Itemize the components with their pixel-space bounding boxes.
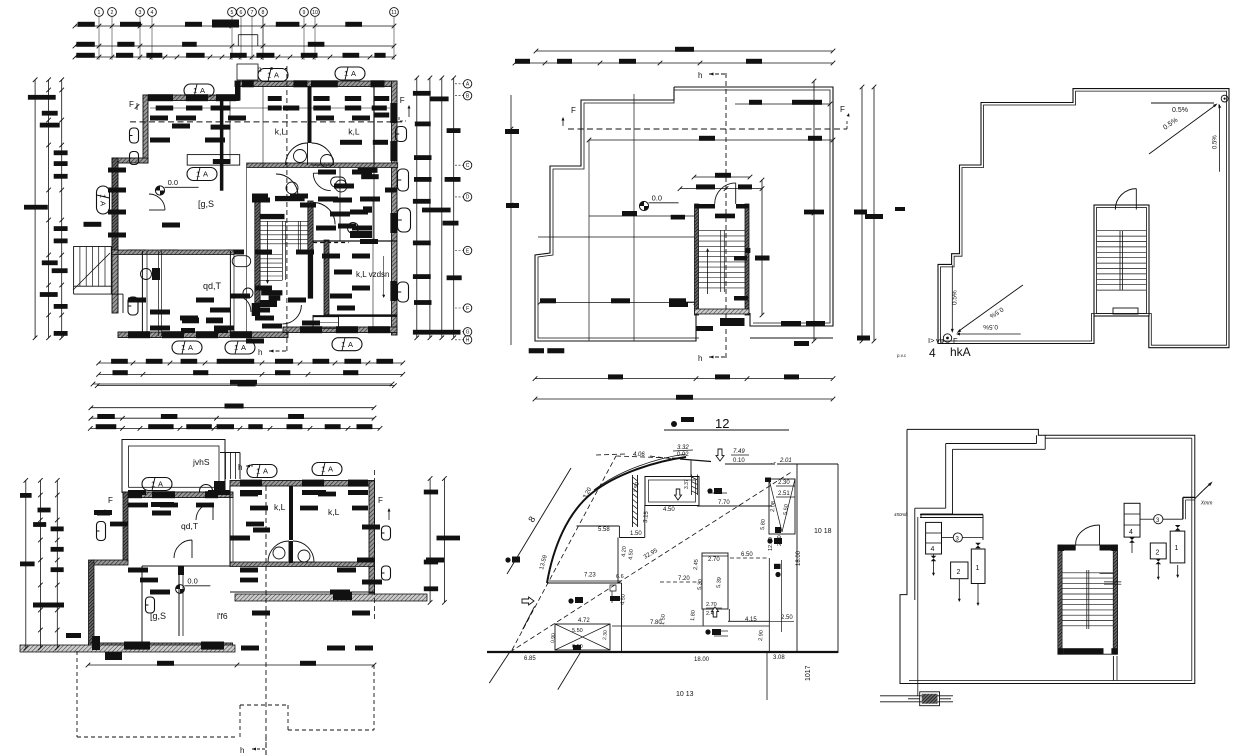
plan3 h-h dashed section line xyxy=(725,73,727,361)
plan4 step detail xyxy=(610,585,618,603)
svg-text:18.00: 18.00 xyxy=(796,550,802,566)
plan1 window blobs right wall xyxy=(390,103,397,123)
svg-text:C: C xyxy=(466,163,470,169)
plan2 bottom wall blobs restamp xyxy=(124,642,150,650)
plan2 interior wall horizontal xyxy=(230,562,374,567)
plan2 bottom wall blobs xyxy=(124,642,150,650)
plan2 interior blobs xyxy=(151,502,174,507)
svg-text:7.23: 7.23 xyxy=(584,573,596,579)
plan5 shaft door xyxy=(1135,189,1137,210)
plan6 shaft door xyxy=(1099,525,1101,545)
plan1 outer wall top-right xyxy=(235,81,397,87)
plan1 bathroom door arcs xyxy=(313,203,335,225)
plan1 partition right rooms vertical xyxy=(373,85,375,164)
svg-text:6.6: 6.6 xyxy=(616,574,624,580)
svg-text:7: 7 xyxy=(251,10,254,16)
plan1 top dimension row 1 xyxy=(75,25,394,27)
plan6 right valves xyxy=(1175,525,1181,531)
plan1 wall between gS and qdT xyxy=(112,250,234,255)
svg-text:1: 1 xyxy=(976,565,980,572)
svg-text:h: h xyxy=(698,71,702,80)
plan4 mid lines xyxy=(697,505,772,507)
svg-text:10: 10 xyxy=(312,10,318,16)
plan1 grid bubbles xyxy=(95,8,104,17)
plan4 dashed diagonal D2 xyxy=(510,471,793,652)
plan1 partition between kL rooms xyxy=(308,86,312,143)
plan2 elevation marker xyxy=(176,585,185,594)
svg-text:jvhS: jvhS xyxy=(192,457,210,467)
svg-text:7.49: 7.49 xyxy=(733,449,745,455)
svg-text:1: 1 xyxy=(98,194,107,198)
svg-text:F: F xyxy=(400,96,405,105)
svg-text:A: A xyxy=(351,69,356,78)
svg-text:F: F xyxy=(129,100,134,109)
plan6 tread line extension xyxy=(1100,573,1114,575)
plan6 left pipe top run xyxy=(920,514,983,516)
svg-text:2.30: 2.30 xyxy=(602,630,609,640)
svg-text:A: A xyxy=(98,201,107,206)
plan6 right box 2 xyxy=(1150,543,1166,559)
plan4 V panel right xyxy=(769,479,795,534)
plan3 top dim row 1 xyxy=(536,50,833,52)
plan2 dim row A xyxy=(91,407,374,409)
plan4 survey dot 5b xyxy=(774,564,781,569)
plan1 interior dim noise row B xyxy=(374,113,389,118)
svg-text:0.02: 0.02 xyxy=(677,452,689,458)
svg-text:10 13: 10 13 xyxy=(676,691,694,698)
svg-text:4.50: 4.50 xyxy=(628,549,635,560)
small dash left of plan5 xyxy=(895,207,905,211)
plan4 left building outline xyxy=(577,525,620,527)
svg-text:5.58: 5.58 xyxy=(598,527,610,533)
svg-text:5.80: 5.80 xyxy=(760,519,767,530)
plan3 bottom dim row 1 xyxy=(535,378,833,380)
plan5 stair shaft xyxy=(1094,205,1149,316)
svg-text:5.50: 5.50 xyxy=(572,628,583,634)
plan4 survey dot 4 xyxy=(707,488,712,493)
svg-text:I>: I> xyxy=(928,336,935,345)
svg-text:A: A xyxy=(241,343,246,352)
plan4 below-base diagonals xyxy=(489,651,510,683)
plan6 left circle 3 xyxy=(953,533,962,542)
plan5 outer wall xyxy=(938,89,1229,348)
svg-text:2.70: 2.70 xyxy=(708,557,720,563)
svg-text:[g,S: [g,S xyxy=(198,199,214,209)
plan1 stair rails xyxy=(281,221,283,280)
svg-text:A: A xyxy=(200,86,205,95)
svg-text:1: 1 xyxy=(341,340,345,349)
plan5 shaft sill xyxy=(1113,308,1138,314)
plan6 stair shaft xyxy=(1058,545,1118,654)
svg-text:1017: 1017 xyxy=(805,665,812,681)
svg-text:2.30: 2.30 xyxy=(778,480,790,486)
plan1 rotated oval stamp left xyxy=(97,186,110,214)
plan2 ground hatch strip left xyxy=(20,645,235,652)
plan3 shaft interior blobs xyxy=(715,214,735,219)
svg-text:A: A xyxy=(188,343,193,352)
plan1 stair shaft left wall xyxy=(255,201,260,303)
plan1 lower-left door arc xyxy=(149,194,165,210)
svg-text:5.30: 5.30 xyxy=(697,579,704,590)
plan1 exterior stair diagonal xyxy=(73,253,110,290)
plan5 slope arrow top-right xyxy=(1149,106,1215,155)
plan3 right dim columns xyxy=(861,87,863,341)
plan1 interior wall below kL rooms xyxy=(247,163,398,168)
svg-text:5.50: 5.50 xyxy=(783,504,790,515)
svg-text:4: 4 xyxy=(931,546,935,553)
plan2 right wall xyxy=(369,481,375,593)
svg-text:3: 3 xyxy=(139,10,142,16)
svg-text:1.50: 1.50 xyxy=(630,531,642,537)
plan3 inner dim line C xyxy=(540,302,696,304)
plan3 interior dim line y237 xyxy=(538,236,695,238)
svg-text:1: 1 xyxy=(98,10,101,16)
plan1 bathroom fixture circle xyxy=(348,223,359,234)
svg-text:2: 2 xyxy=(111,10,114,16)
svg-text:7.80: 7.80 xyxy=(650,620,662,626)
svg-text:0.10: 0.10 xyxy=(733,458,745,464)
svg-text:k,L vzdsn: k,L vzdsn xyxy=(356,270,390,279)
plan1 bottom dimension row 1 xyxy=(99,362,403,364)
plan5 slope arrow bottom-left xyxy=(951,265,953,330)
svg-text:2.45: 2.45 xyxy=(693,559,700,570)
svg-text:k,L: k,L xyxy=(328,507,340,517)
plan3 right vertical dim near shaft xyxy=(761,180,763,315)
svg-text:9: 9 xyxy=(303,10,306,16)
plan1 counter rectangle xyxy=(187,155,240,166)
svg-text:12.10: 12.10 xyxy=(768,537,774,551)
plan1 bottom wall window blobs xyxy=(128,331,150,338)
plan2 door arc gS xyxy=(196,503,213,520)
svg-text:2.90: 2.90 xyxy=(758,630,765,641)
plan1 small 1F oval xyxy=(232,256,251,267)
svg-text:2: 2 xyxy=(1156,550,1160,557)
plan6 right circle 3 xyxy=(1154,515,1163,524)
svg-text:7.70: 7.70 xyxy=(718,500,730,506)
svg-text:4: 4 xyxy=(1129,529,1133,536)
svg-text:11: 11 xyxy=(391,10,396,16)
svg-text:k,L: k,L xyxy=(274,502,286,512)
plan3 outer wall xyxy=(535,87,833,341)
svg-text:1.80: 1.80 xyxy=(690,610,697,621)
plan1 stair treads upper flight xyxy=(260,220,308,222)
plan4 NW diagonal line xyxy=(507,468,571,574)
svg-text:h: h xyxy=(240,746,244,755)
svg-text:F: F xyxy=(466,306,469,312)
svg-text:4.50: 4.50 xyxy=(663,507,675,513)
plan1 oval stamps xyxy=(187,168,217,181)
plan3 shaft dim rows above xyxy=(694,176,750,178)
plan3 stair treads xyxy=(699,230,746,232)
svg-text:1: 1 xyxy=(256,467,260,476)
svg-text:0.0: 0.0 xyxy=(168,178,178,187)
plan2 top wall left xyxy=(123,492,233,498)
plan1 vzdsn room dim lines xyxy=(372,200,374,333)
svg-text:12: 12 xyxy=(715,416,729,431)
plan1 stair shaft top beams xyxy=(260,214,284,219)
plan1 outer wall top-left xyxy=(143,95,239,101)
plan1 top dimension row 3 xyxy=(75,56,394,58)
plan4 X box bottom-left xyxy=(555,624,610,650)
plan2 dashed section lines xyxy=(265,486,267,756)
svg-text:4: 4 xyxy=(929,346,936,360)
scale bar 12 xyxy=(671,421,677,427)
plan2 double door arcs xyxy=(268,541,289,562)
svg-text:1: 1 xyxy=(1175,545,1179,552)
plan4 hollow arrow right xyxy=(522,597,534,605)
svg-text:7.20: 7.20 xyxy=(678,576,690,582)
plan6 right box 4 xyxy=(1124,503,1140,537)
svg-text:A: A xyxy=(328,465,333,474)
plan6 right box 1 xyxy=(1170,531,1185,563)
plan2 courtyard outline xyxy=(122,440,225,493)
plan1 bottom dimension row 3 xyxy=(97,385,394,387)
plan3 shaft door arc xyxy=(715,183,736,204)
svg-text:A: A xyxy=(263,467,268,476)
plan4 right verticals xyxy=(796,464,798,653)
plan1 bottom wall xyxy=(118,332,288,338)
plan1 left dimension columns xyxy=(34,80,36,338)
plan1 stair bottom door arc xyxy=(282,305,301,324)
svg-text:0.5%: 0.5% xyxy=(983,323,998,330)
svg-text:qd,T: qd,T xyxy=(181,521,198,531)
plan1 interior misc blobs xyxy=(211,125,231,130)
svg-text:3.37: 3.37 xyxy=(684,479,690,489)
plan1 wc fixture circle xyxy=(243,288,253,298)
svg-text:2.01: 2.01 xyxy=(779,458,792,464)
plan3 inner dim line B xyxy=(589,139,833,141)
svg-text:4.50: 4.50 xyxy=(620,594,627,605)
plan1 outer wall left upper xyxy=(143,95,148,163)
plan5 shaft treads xyxy=(1097,230,1146,232)
plan6 inner wall top-left section xyxy=(946,443,1037,445)
svg-text:k,L: k,L xyxy=(348,127,360,137)
plan3 inner dim line A xyxy=(735,103,830,105)
svg-text:l'f6: l'f6 xyxy=(217,611,228,621)
plan3 right wing blobs xyxy=(781,321,801,326)
plan1 right letter bubbles xyxy=(463,80,471,88)
plan1 left wall fixtures xyxy=(128,297,138,315)
plan2 top wall right xyxy=(230,481,374,487)
plan1 stair treads lower flight xyxy=(260,254,282,256)
plan1 fixture rect below shaft xyxy=(313,317,338,329)
plan2 left dim columns xyxy=(25,480,27,648)
svg-text:1: 1 xyxy=(321,465,325,474)
plan1 small 1F oval kL room xyxy=(331,177,346,187)
plan2 left wall upper xyxy=(123,492,128,562)
plan2 bottom wall xyxy=(89,643,233,649)
plan1 outer wall right xyxy=(392,81,398,335)
plan6 left box 4 xyxy=(926,522,942,554)
plan1 exterior stair xyxy=(74,247,112,287)
svg-text:0.90: 0.90 xyxy=(550,633,557,643)
plan1 stair top door arc xyxy=(276,174,298,196)
plan1 stair shaft right wall xyxy=(308,201,313,250)
plan4 base line xyxy=(487,651,838,653)
plan4 dashed diagonal D1 xyxy=(512,456,616,650)
plan1 wall window blobs top xyxy=(148,94,173,101)
plan3 inner vertical dim xyxy=(813,81,815,341)
svg-text:2.51: 2.51 xyxy=(778,491,790,497)
plan4 below base vertical xyxy=(766,653,768,700)
svg-text:A: A xyxy=(348,340,353,349)
plan2 interior partitions lower xyxy=(141,566,143,643)
svg-text:3.15: 3.15 xyxy=(643,510,650,523)
svg-text:2.50: 2.50 xyxy=(781,615,793,621)
plan6 step below shaft xyxy=(1112,656,1114,681)
plan6 shaft treads xyxy=(1063,572,1114,574)
svg-text:F: F xyxy=(840,105,845,114)
plan4 survey dot 5 xyxy=(767,538,772,543)
svg-text:4: 4 xyxy=(151,10,154,16)
plan6 inner wall right section xyxy=(1045,437,1192,439)
plan1 vertical interior lines xyxy=(262,86,264,167)
svg-text:8: 8 xyxy=(262,10,265,16)
svg-text:F: F xyxy=(571,106,576,115)
plan1 F-F dashed section line xyxy=(130,121,404,123)
plan1 h-h dashed section line xyxy=(286,66,288,351)
plan2 extra blobs xyxy=(128,503,148,508)
plan3 below-left corner blobs xyxy=(529,348,544,353)
plan2 dim row B xyxy=(91,417,374,419)
plan3 left dim blobs xyxy=(505,129,519,134)
svg-text:vb: vb xyxy=(936,336,944,345)
svg-text:4.20: 4.20 xyxy=(621,546,628,557)
svg-text:p.v.c: p.v.c xyxy=(897,353,907,358)
plan2 bottom dim row xyxy=(88,664,374,666)
plan4 hatched column left of box xyxy=(632,475,634,527)
svg-text:0.0: 0.0 xyxy=(652,194,662,203)
svg-text:Xmm: Xmm xyxy=(1200,500,1213,506)
svg-text:6.50: 6.50 xyxy=(741,552,753,558)
plan2 right dim columns xyxy=(429,479,431,603)
plan5 corner drain xyxy=(943,334,951,342)
svg-text:2.08: 2.08 xyxy=(770,501,777,512)
plan4 survey dot 3 xyxy=(705,629,710,634)
svg-text:3.08: 3.08 xyxy=(773,655,785,661)
plan2 dashed basement outline xyxy=(76,651,78,737)
plan6 left valves xyxy=(931,556,937,562)
svg-text:1: 1 xyxy=(234,343,238,352)
svg-text:18.00: 18.00 xyxy=(694,657,710,663)
plan1 radiator pills left xyxy=(130,128,139,143)
svg-text:1: 1 xyxy=(181,343,185,352)
svg-text:4.72: 4.72 xyxy=(578,618,590,624)
svg-text:A: A xyxy=(158,480,163,489)
plan1 right dimension columns xyxy=(416,78,418,338)
plan1 interior dim noise row A xyxy=(156,106,174,111)
plan6 pipe left riser xyxy=(917,517,919,696)
plan1 qdT interior row blobs xyxy=(182,318,199,324)
plan1 bathroom zone blobs xyxy=(318,170,336,175)
plan4 hatched column right of box xyxy=(691,475,693,496)
plan4 step detail blobs xyxy=(610,596,620,601)
svg-text:G: G xyxy=(466,330,470,336)
plan4 top box xyxy=(645,477,699,506)
plan3 extra blobs below shaft xyxy=(669,302,688,307)
svg-text:F: F xyxy=(108,496,113,505)
svg-text:1: 1 xyxy=(344,69,348,78)
svg-text:1: 1 xyxy=(193,86,197,95)
plan1 elevation marker xyxy=(155,186,164,195)
svg-text:1: 1 xyxy=(267,71,271,80)
svg-text:A: A xyxy=(203,170,208,179)
plan1 double door arcs kL xyxy=(286,143,308,165)
svg-text:450mb: 450mb xyxy=(894,512,908,517)
plan1 porch rect above entry xyxy=(237,64,258,80)
plan2 dim row C xyxy=(90,427,380,429)
plan2 lower horizontal wall right xyxy=(230,591,374,593)
svg-text:5.39: 5.39 xyxy=(716,577,723,588)
svg-text:D: D xyxy=(466,195,470,201)
plan2 left wall lower xyxy=(89,560,95,648)
svg-text:10 18: 10 18 xyxy=(814,528,832,535)
plan1 short dashed right of shaft xyxy=(313,242,349,244)
svg-text:6.50: 6.50 xyxy=(572,644,583,650)
plan4 right top lines xyxy=(725,463,775,465)
plan3 inner vertical line xyxy=(633,94,635,341)
plan2 top dim long line xyxy=(93,383,392,385)
svg-text:k,L: k,L xyxy=(275,127,287,137)
plan2 oval stamps xyxy=(142,478,172,491)
svg-text:hkA: hkA xyxy=(950,345,971,359)
plan1 bottom dimension row 2 xyxy=(99,373,403,375)
plan3 elevation marker xyxy=(639,201,648,210)
plan4 survey dot 2 xyxy=(568,598,573,603)
plan1 qdT room side walls xyxy=(141,251,143,336)
svg-text:1: 1 xyxy=(151,480,155,489)
plan6 bottom-left component xyxy=(880,695,953,697)
plan2 door arc qdT xyxy=(174,540,192,558)
svg-text:h: h xyxy=(258,348,262,357)
plan2 step wall xyxy=(93,560,128,565)
plan3 stair shaft xyxy=(695,204,699,315)
plan4 survey dot 1 xyxy=(505,557,510,562)
plan4 mid room rect xyxy=(702,553,728,609)
svg-text:h: h xyxy=(698,354,702,363)
svg-text:4.15: 4.15 xyxy=(745,617,757,623)
svg-text:6.85: 6.85 xyxy=(524,656,536,662)
svg-text:h: h xyxy=(238,463,242,472)
plan1 top dimension row 2 xyxy=(75,45,394,47)
svg-text:1: 1 xyxy=(196,170,200,179)
svg-text:H: H xyxy=(466,338,470,344)
plan1 partition left of kL xyxy=(220,100,224,191)
plan2 partition kL rooms xyxy=(289,486,293,540)
plan1 outer wall left step xyxy=(112,158,148,163)
plan6 left box 1 xyxy=(971,549,985,584)
svg-text:0.5%: 0.5% xyxy=(1213,135,1219,149)
svg-text:4.06: 4.06 xyxy=(633,452,645,458)
plan6 outer boundary xyxy=(900,429,1195,683)
plan3 top dim row 2 xyxy=(515,62,833,64)
plan6 left box 2 xyxy=(951,562,968,579)
plan4 749 arrow xyxy=(716,449,724,461)
svg-text:F: F xyxy=(953,336,958,345)
plan1 radiator pills right xyxy=(396,127,407,142)
plan2 courtyard side stair xyxy=(220,452,240,454)
svg-text:2.50: 2.50 xyxy=(777,535,783,546)
svg-text:0.5%: 0.5% xyxy=(1172,107,1188,114)
plan1 stair bottom blobs xyxy=(261,290,282,295)
plan2 radiator pills xyxy=(97,522,106,541)
svg-text:A: A xyxy=(274,71,279,80)
plan4 road curve xyxy=(547,457,686,583)
svg-text:5: 5 xyxy=(231,10,234,16)
svg-text:2: 2 xyxy=(957,569,961,576)
plan1 bathroom walls right-bottom xyxy=(324,240,329,316)
plan2 terrace hatch strip xyxy=(235,594,427,601)
